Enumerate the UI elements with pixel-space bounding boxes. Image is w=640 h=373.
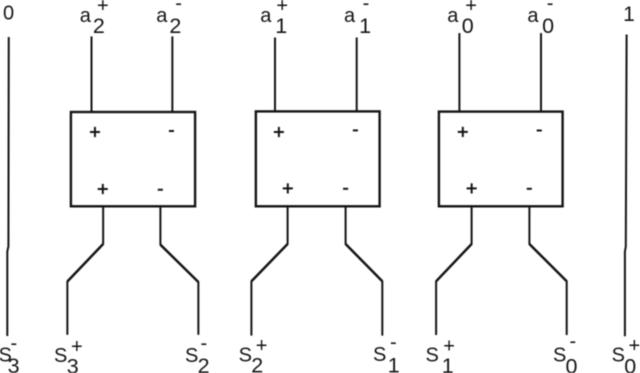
node S0- (sum output label) bbox=[553, 331, 578, 373]
wire right rail from 1 to S0+ bbox=[625, 35, 627, 337]
node S2+ (sum output label) bbox=[239, 335, 268, 373]
svg-text:2: 2 bbox=[93, 14, 105, 38]
pin label - (U3 top-right input) bbox=[537, 130, 542, 132]
wire U2 left output to S2+ bbox=[251, 206, 287, 335]
node S3- (sum output label) bbox=[0, 333, 20, 373]
svg-text:S: S bbox=[54, 345, 67, 367]
svg-text:+: + bbox=[443, 336, 455, 358]
wire a1+ to U2 bbox=[274, 38, 276, 112]
adder cell U1 (digit position 2) bbox=[71, 112, 195, 206]
node S1- (sum output label) bbox=[373, 332, 400, 373]
svg-text:-: - bbox=[363, 0, 370, 15]
svg-text:+: + bbox=[629, 335, 640, 357]
svg-text:S: S bbox=[373, 344, 386, 366]
wire U3 right output to S0- bbox=[529, 206, 566, 335]
pin label + (U2 top-left input) bbox=[274, 127, 284, 137]
node S0+ (sum output label) bbox=[612, 335, 640, 373]
svg-text:0: 0 bbox=[3, 2, 14, 24]
svg-text:0: 0 bbox=[462, 14, 474, 38]
pin label + (U1 top-left input) bbox=[90, 127, 100, 137]
pin label + (U2 bottom-left output) bbox=[283, 183, 293, 193]
node a2+ (input label) bbox=[80, 0, 109, 38]
svg-text:-: - bbox=[11, 333, 18, 355]
wire a1- to U2 bbox=[356, 38, 358, 112]
svg-text:+: + bbox=[256, 335, 268, 357]
wire U2 right output to S1- bbox=[346, 206, 383, 335]
node 1 (constant one input label) bbox=[623, 3, 635, 26]
svg-text:+: + bbox=[276, 0, 288, 17]
wire U1 left output to S3+ bbox=[67, 206, 103, 334]
node a0- (input label) bbox=[527, 0, 554, 38]
node S1+ (sum output label) bbox=[426, 336, 455, 373]
wire U1 right output to S2- bbox=[160, 206, 198, 334]
node a1+ (input label) bbox=[260, 0, 288, 38]
wire U3 left output to S1+ bbox=[436, 206, 472, 335]
pin label - (U1 top-right input) bbox=[169, 130, 174, 132]
svg-text:-: - bbox=[570, 331, 577, 353]
pin label - (U1 bottom-right output) bbox=[158, 189, 163, 191]
adder cell U3 (digit position 0) bbox=[439, 112, 563, 207]
svg-text:1: 1 bbox=[388, 354, 400, 373]
svg-text:-: - bbox=[547, 0, 554, 15]
svg-text:1: 1 bbox=[275, 14, 287, 38]
svg-text:1: 1 bbox=[623, 3, 635, 26]
node S2- (sum output label) bbox=[185, 333, 210, 373]
svg-text:+: + bbox=[71, 336, 83, 358]
svg-text:S: S bbox=[612, 345, 625, 367]
wire a0+ to U3 bbox=[458, 33, 460, 112]
svg-text:3: 3 bbox=[8, 354, 20, 373]
wire a2- to U1 bbox=[171, 36, 173, 112]
svg-text:0: 0 bbox=[542, 14, 554, 38]
svg-text:a: a bbox=[260, 5, 272, 27]
svg-text:1: 1 bbox=[359, 14, 371, 38]
adder cell U2 (digit position 1) bbox=[256, 111, 380, 206]
svg-text:S: S bbox=[426, 344, 439, 366]
node a2- (input label) bbox=[156, 0, 182, 38]
node a0+ (input label) bbox=[447, 0, 477, 38]
svg-text:2: 2 bbox=[169, 14, 181, 38]
wire left rail from 0 to S3- bbox=[7, 37, 8, 336]
svg-text:+: + bbox=[465, 0, 477, 17]
wire a0- to U3 bbox=[540, 33, 542, 112]
svg-text:0: 0 bbox=[566, 355, 578, 373]
pin label - (U3 bottom-right output) bbox=[527, 188, 532, 190]
svg-text:a: a bbox=[527, 5, 539, 27]
svg-text:-: - bbox=[201, 333, 208, 355]
svg-text:a: a bbox=[344, 5, 356, 27]
pin label - (U2 bottom-right output) bbox=[343, 188, 348, 190]
node S3+ (sum output label) bbox=[54, 336, 83, 373]
svg-text:S: S bbox=[185, 345, 198, 367]
pin label + (U3 bottom-left output) bbox=[467, 183, 477, 193]
svg-text:a: a bbox=[80, 5, 92, 27]
svg-text:a: a bbox=[447, 5, 459, 27]
svg-text:2: 2 bbox=[198, 354, 210, 373]
pin label + (U3 top-left input) bbox=[458, 127, 468, 137]
svg-text:a: a bbox=[156, 5, 168, 27]
wire a2+ to U1 bbox=[91, 36, 93, 112]
svg-text:0: 0 bbox=[624, 355, 636, 373]
pin label + (U1 bottom-left output) bbox=[98, 184, 108, 194]
svg-text:S: S bbox=[239, 345, 252, 367]
svg-text:-: - bbox=[175, 0, 182, 15]
svg-text:+: + bbox=[97, 0, 109, 17]
svg-text:S: S bbox=[553, 345, 566, 367]
pin label - (U2 top-right input) bbox=[353, 129, 358, 131]
svg-text:-: - bbox=[390, 332, 397, 354]
node a1- (input label) bbox=[344, 0, 371, 38]
node 0 (constant zero input label) bbox=[3, 2, 14, 24]
